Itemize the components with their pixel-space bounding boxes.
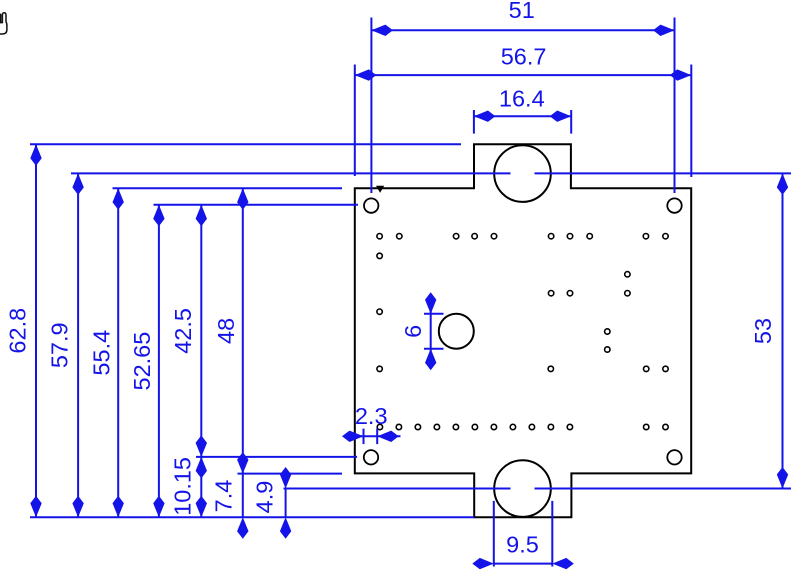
svg-text:9.5: 9.5 — [506, 532, 539, 558]
svg-text:4.9: 4.9 — [252, 481, 278, 514]
svg-text:10.15: 10.15 — [170, 457, 196, 516]
svg-text:55.4: 55.4 — [88, 330, 114, 376]
svg-text:16.4: 16.4 — [499, 86, 545, 112]
svg-text:42.5: 42.5 — [170, 308, 196, 354]
svg-text:56.7: 56.7 — [501, 43, 547, 69]
svg-text:53: 53 — [750, 318, 776, 344]
svg-text:62.8: 62.8 — [4, 308, 30, 354]
svg-text:51: 51 — [509, 0, 535, 23]
svg-text:57.9: 57.9 — [46, 322, 72, 368]
svg-text:52.65: 52.65 — [129, 332, 155, 391]
svg-text:48: 48 — [213, 318, 239, 344]
svg-text:2.3: 2.3 — [355, 403, 388, 429]
svg-text:7.4: 7.4 — [211, 480, 237, 513]
svg-text:6: 6 — [400, 325, 426, 338]
